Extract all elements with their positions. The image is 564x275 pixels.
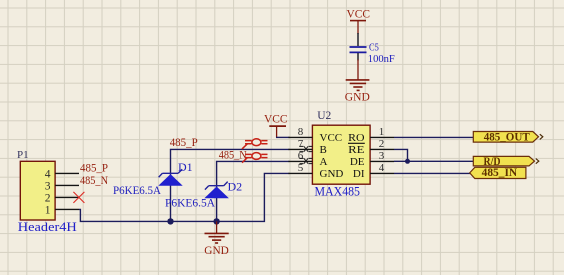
junction at RE/DE tie [405,159,410,164]
connector P1 [17,149,77,234]
U2 pin 7 [288,148,312,150]
differential pair directive on 485_P [242,139,268,149]
IC U2 MAX485 [312,110,370,199]
svg-text:GND: GND [320,168,344,180]
U2 pin 5 [288,172,312,174]
wire C5 to GND [357,53,359,61]
wire VCC to C5 [357,33,359,46]
svg-text:2: 2 [45,193,51,205]
P1 pin 1 [55,208,79,210]
svg-text:P6KE6.5A: P6KE6.5A [165,196,215,210]
svg-text:DE: DE [350,156,365,168]
svg-text:U2: U2 [317,110,331,122]
wire U2 pin3 to port R/D [394,160,474,162]
wire U2 pin4 to port 485_IN [394,172,470,174]
P1 pin 3 [55,184,79,186]
svg-text:GND: GND [204,243,229,257]
U2 pin 4 [370,172,394,174]
GND power port (under D2) [204,221,229,257]
svg-text:VCC: VCC [320,132,343,144]
svg-text:VCC: VCC [264,112,288,126]
svg-text:Header4H: Header4H [18,219,77,234]
no-ERC cross on P1 pin 2 [73,192,84,203]
svg-text:1: 1 [45,205,51,217]
svg-text:485_P: 485_P [80,163,108,175]
svg-text:485_OUT: 485_OUT [484,130,530,144]
differential pair directive on 485_N [242,153,268,163]
svg-text:C5: C5 [369,42,379,54]
svg-text:485_P: 485_P [170,137,198,149]
junction on GND wire at D1 [167,218,173,224]
GND power port (top, under C5) [345,60,370,104]
pin 7 inside-edge glyph [300,146,313,151]
svg-text:VCC: VCC [347,7,371,21]
U2 pin 3 [370,160,394,162]
svg-text:3: 3 [379,150,385,162]
svg-text:2: 2 [379,138,385,150]
svg-text:A: A [320,156,328,168]
U2 pin 6 [288,160,312,162]
svg-text:1: 1 [379,126,385,138]
port 485_IN [470,165,526,179]
VCC power port (at U2 pin 8) [264,112,288,138]
TVS diode D1 [158,160,192,186]
junction on GND wire at D2 [213,218,219,224]
svg-text:7: 7 [298,138,304,150]
svg-text:D1: D1 [178,160,193,174]
capacitor C5 [350,42,395,65]
wire 485_N: D2 top to U2 pin6 [217,161,290,221]
svg-text:DI: DI [353,168,365,180]
svg-text:8: 8 [298,126,304,138]
svg-text:RE: RE [348,144,365,156]
svg-text:485_IN: 485_IN [482,165,518,179]
svg-text:3: 3 [45,181,51,193]
svg-text:100nF: 100nF [368,53,395,65]
P1 pin 4 [55,172,79,174]
svg-text:P6KE6.5A: P6KE6.5A [113,183,161,197]
pin 6 inside-edge glyph [300,158,313,163]
svg-text:MAX485: MAX485 [315,184,361,199]
wire U2 pin2 tie down to pin3 [394,149,408,161]
svg-text:D2: D2 [228,180,243,194]
svg-text:485_N: 485_N [219,150,248,162]
svg-text:485_N: 485_N [80,175,109,187]
port 485_OUT [473,130,543,144]
svg-text:P1: P1 [17,149,29,161]
svg-text:B: B [320,144,327,156]
wire VCC to U2 pin 8 [276,136,290,138]
svg-text:RO: RO [348,132,364,144]
U2 pin 8 [288,136,312,138]
wire GND net: P1 pin1 to U2 pin5 [79,173,290,221]
P1 pin 2 [55,196,79,198]
svg-text:GND: GND [345,90,370,104]
U2 pin 1 [370,136,394,138]
U2 pin 2 [370,148,394,150]
wire U2 pin1 to port 485_OUT [394,136,474,138]
port R/D [473,154,539,168]
svg-text:4: 4 [45,169,51,181]
capacitor branch: VCC power port [347,7,371,35]
svg-text:4: 4 [379,162,385,174]
TVS diode D2 [204,180,242,199]
wire 485_P: D1 top to U2 pin7 [171,149,290,221]
